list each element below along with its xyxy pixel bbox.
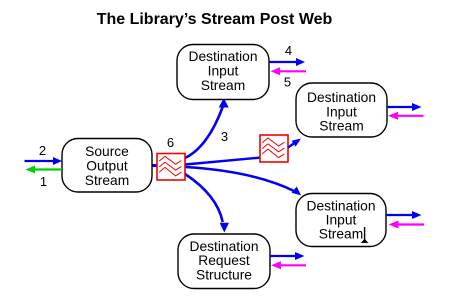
svg-text:Destination: Destination — [188, 49, 257, 64]
splitter icon 6 — [157, 154, 185, 181]
arrow blue out of middle-right box — [387, 106, 413, 108]
arrow magenta into middle-right box — [397, 115, 424, 117]
arrowhead into bottom destination box — [220, 223, 229, 233]
arrow 2 (blue into source box) — [25, 160, 55, 162]
arrow 4 (blue out of top box) — [270, 61, 298, 63]
wire source box to splitter icon — [151, 164, 158, 167]
source output stream box — [62, 139, 152, 193]
svg-text:Input: Input — [326, 213, 357, 228]
svg-text:2: 2 — [39, 143, 46, 158]
svg-text:4: 4 — [285, 43, 292, 58]
svg-text:6: 6 — [167, 135, 174, 150]
arrowhead into lower-right destination box — [292, 187, 302, 196]
arrow magenta into bottom box — [280, 264, 306, 266]
svg-text:Destination: Destination — [307, 90, 376, 105]
svg-text:Stream: Stream — [319, 227, 363, 242]
wire splitter to lower-right destination (curve) — [185, 167, 295, 192]
svg-text:1: 1 — [40, 174, 47, 189]
svg-text:Stream: Stream — [85, 173, 129, 188]
arrowhead into top destination box — [219, 98, 229, 108]
arrow magenta into lower-right box — [398, 223, 425, 225]
wire splitter to second splitter icon — [185, 158, 261, 165]
wire second splitter to middle-right destination — [288, 143, 295, 148]
svg-text:Source: Source — [85, 144, 129, 159]
arrowhead into middle-right destination box — [292, 139, 301, 147]
svg-text:Output: Output — [86, 158, 128, 173]
svg-text:Input: Input — [326, 104, 357, 119]
bottom destination request structure box — [178, 234, 270, 289]
svg-text:5: 5 — [284, 75, 291, 90]
svg-text:Destination: Destination — [306, 199, 375, 214]
arrow 5 (magenta into top box) — [279, 70, 306, 72]
svg-text:Stream: Stream — [201, 78, 245, 93]
svg-text:The Library’s Stream Post Web: The Library’s Stream Post Web — [97, 11, 333, 28]
arrow blue out of lower-right box — [386, 214, 413, 216]
lower-right destination input stream box — [296, 194, 386, 247]
svg-text:3: 3 — [221, 129, 228, 144]
svg-text:Input: Input — [208, 64, 239, 79]
svg-text:Structure: Structure — [196, 268, 252, 283]
second splitter icon — [260, 135, 288, 162]
top destination input stream box — [177, 45, 269, 100]
arrow blue out of bottom box — [270, 255, 296, 257]
wire splitter to bottom destination (curve) — [185, 174, 223, 222]
text cursor after Stream — [364, 227, 366, 240]
svg-text:Destination: Destination — [189, 239, 258, 254]
svg-text:Request: Request — [198, 253, 250, 268]
middle-right destination input stream box — [296, 83, 387, 137]
svg-text:Stream: Stream — [319, 119, 363, 134]
arrow 1 (green out of source box) — [34, 168, 62, 170]
wire splitter to top destination (curve), label 3 — [185, 106, 223, 158]
